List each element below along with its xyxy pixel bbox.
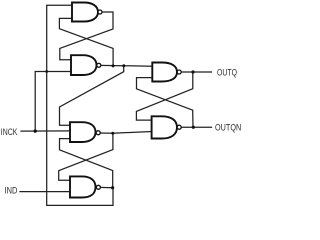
inverter bubble U1 <box>98 10 102 14</box>
svg-text:IND: IND <box>5 185 18 195</box>
wire U6 output to OUTQN <box>181 126 211 128</box>
wire U4 output branch to U3 lower input (cross-couple) <box>60 139 113 188</box>
junction blob left feedback crossing <box>45 70 48 73</box>
wire U1 output to U2 upper input (cross-couple) <box>60 12 113 60</box>
wire U3 output run to U6 lower input <box>100 132 152 134</box>
inverter bubble U2 <box>97 63 101 67</box>
wire INCK horizontal into U3 middle input <box>21 130 71 132</box>
junction dot U3out/U4 feedback <box>111 132 114 135</box>
wire U3 output branch to U4 upper input (cross-couple) <box>59 133 113 180</box>
wire INCK riser up to U2 lower input <box>35 72 71 132</box>
inverter bubble U4 <box>96 185 100 189</box>
wire U4 output to junction <box>100 186 113 188</box>
inverter bubble U6 <box>177 125 181 129</box>
wire U2 output to U1 lower input (cross-couple) <box>59 18 113 66</box>
wire IND horizontal into U4 lower input <box>20 191 71 193</box>
NAND gate U3 (clock gate, 3-input) <box>70 122 96 142</box>
wire U2 output run to U5 upper input <box>101 64 153 67</box>
junction dot U2out/U3 feedback <box>122 64 125 67</box>
NAND gate U2 <box>71 55 97 75</box>
NAND gate U6 (output latch, OUTQN) <box>152 116 177 138</box>
junction dot OUTQN <box>192 126 195 129</box>
svg-text:INCK: INCK <box>1 127 18 137</box>
NAND gate U1 (top left) <box>72 3 98 22</box>
junction dot U4out <box>111 186 114 189</box>
wire U6 output branch to U5 lower input (cross-couple) <box>137 78 194 128</box>
NAND gate U5 (output latch, OUTQ) <box>152 63 177 82</box>
junction dot OUTQ <box>191 70 194 73</box>
junction dot U2out/U1 feedback <box>112 64 115 67</box>
wire G4out feedback loop: left vertical, bottom run, up to G4 output dot <box>47 5 113 205</box>
svg-text:OUTQ: OUTQ <box>217 67 237 77</box>
svg-text:OUTQN: OUTQN <box>215 122 241 132</box>
junction dot INCK riser <box>34 129 37 132</box>
wire U5 output branch to U6 upper input (cross-couple) <box>136 72 192 120</box>
inverter bubble U3 <box>96 131 100 135</box>
wire U5 output to OUTQ <box>181 71 211 73</box>
NAND gate U4 (data gate) <box>70 176 96 197</box>
inverter bubble U5 <box>177 70 181 74</box>
wire U2 output branch to U3 upper input <box>60 66 124 125</box>
